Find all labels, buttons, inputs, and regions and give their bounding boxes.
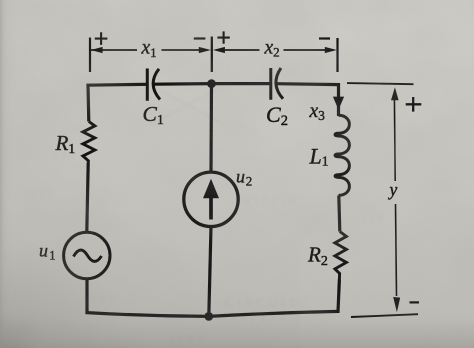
source u2 arrow (209, 192, 213, 220)
polarity + y top (406, 97, 422, 112)
dimension arrow x1 right (162, 49, 201, 51)
wire R1 to u1 (87, 163, 88, 233)
wire u1 to bottom-left corner (87, 279, 209, 317)
dimension tick middle (211, 37, 213, 73)
source u2 circle (184, 172, 238, 226)
wire top-left corner (top wire to R1 top) (88, 84, 148, 121)
polarity + middle-right (217, 31, 229, 43)
capacitor C2 curved plate (276, 68, 283, 99)
y dimension arrowhead down (393, 297, 400, 312)
dimension arrow x2 right (284, 49, 326, 51)
polarity - middle-left (194, 37, 206, 39)
wire R2 to bottom-right corner (209, 279, 340, 316)
y dimension bottom reference line (351, 314, 418, 317)
inductor L1 (335, 115, 349, 195)
dimension tick right (336, 38, 338, 72)
resistor R2 (335, 232, 347, 280)
polarity - right (319, 37, 330, 39)
y dimension vertical line lower (396, 204, 397, 296)
wire L1 to R2 (339, 196, 340, 232)
y dimension top reference line (347, 83, 414, 84)
node bottom junction dot (204, 312, 213, 321)
dimension tick left (89, 38, 91, 73)
source u1 circle (64, 232, 110, 278)
source u1 sine wave (74, 250, 102, 261)
polarity + left (95, 32, 108, 45)
capacitor C1 curved plate (153, 69, 160, 100)
node top junction dot (207, 79, 216, 88)
wire C2 to top-right corner down (277, 84, 339, 116)
ink layer (39, 31, 421, 320)
faint bleed-through ghost marks (30, 85, 384, 346)
wire middle vertical top (209, 83, 213, 171)
y dimension arrowhead up (391, 87, 399, 100)
dimension arrow x2 left (224, 49, 260, 51)
wire middle node to C2 (212, 82, 272, 85)
wire u2 to bottom junction (209, 227, 211, 317)
current direction arrow x3 (333, 97, 344, 110)
capacitor C1 left plate (146, 69, 149, 101)
resistor R1 (83, 122, 95, 163)
y dimension vertical line upper (393, 97, 396, 181)
capacitor C2 left plate (269, 68, 272, 100)
polarity - y bottom (410, 301, 420, 303)
wire C1 to middle node (154, 82, 212, 86)
dimension arrow x1 left (91, 49, 137, 51)
